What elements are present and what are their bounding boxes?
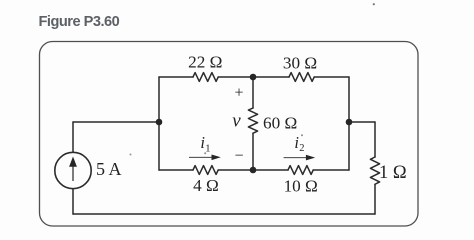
resistor R 22ohm zigzag	[193, 73, 218, 82]
wire top-right (30 ohm to corner)	[314, 76, 349, 78]
wire 1ohm bottom lead	[374, 184, 376, 214]
current source arrow	[72, 166, 73, 181]
svg-text:22 Ω: 22 Ω	[188, 53, 222, 72]
wire bottom-middle-left (left branch to 4 ohm)	[159, 169, 193, 171]
svg-text:5 A: 5 A	[96, 159, 122, 179]
wire bottom-middle (4 ohm to 10 ohm)	[218, 169, 288, 171]
svg-text:+: +	[234, 84, 243, 101]
wire 1ohm top lead	[374, 122, 376, 157]
current arrow i2	[284, 156, 308, 159]
svg-text:60 Ω: 60 Ω	[263, 113, 297, 132]
wire source to node A	[73, 121, 159, 123]
wire top-left (node to 22 ohm)	[159, 76, 193, 78]
node bottom (v-)	[250, 167, 257, 174]
resistor R 60ohm vertical zigzag	[248, 108, 257, 133]
svg-text:10 Ω: 10 Ω	[284, 177, 318, 196]
node A (left junction)	[156, 119, 163, 126]
wire right vertical branch (top part)	[348, 77, 350, 122]
wire node B to 1 ohm branch	[349, 121, 375, 123]
svg-text:2: 2	[299, 143, 304, 154]
resistor R 4ohm zigzag	[193, 166, 218, 175]
wire bottom-middle-right (10 ohm to right branch)	[313, 169, 349, 171]
svg-text:30 Ω: 30 Ω	[283, 54, 317, 73]
wire source top lead	[72, 122, 74, 152]
wire bottom rail	[73, 213, 375, 215]
svg-text:Figure P3.60: Figure P3.60	[39, 14, 120, 30]
resistor R 30ohm zigzag	[289, 73, 314, 82]
enclosure border	[40, 42, 419, 227]
wire 60ohm branch top lead	[252, 77, 254, 108]
svg-text:1 Ω: 1 Ω	[379, 163, 407, 183]
scan speck right of 5 A	[130, 154, 132, 156]
svg-text:v: v	[232, 111, 241, 132]
svg-text:−: −	[234, 148, 243, 165]
svg-text:1: 1	[205, 143, 210, 154]
wire left vertical branch	[158, 77, 160, 170]
wire source bottom lead	[72, 189, 74, 214]
resistor R 10ohm zigzag	[288, 166, 313, 175]
scan speck top right	[373, 3, 375, 5]
wire 60ohm branch bottom lead	[252, 133, 254, 170]
resistor R 1ohm vertical zigzag	[370, 157, 379, 184]
scan speck near i1	[204, 152, 206, 154]
svg-text:4 Ω: 4 Ω	[193, 176, 219, 195]
node top (v+)	[250, 74, 257, 81]
current source circle	[55, 152, 91, 188]
wire right vertical branch (bottom part)	[348, 122, 350, 170]
current arrow i1	[189, 156, 213, 159]
node B (right junction)	[346, 119, 353, 126]
wire top-middle (22 ohm to 30 ohm)	[218, 76, 289, 78]
scan speck near 60 ohm label	[301, 134, 303, 136]
